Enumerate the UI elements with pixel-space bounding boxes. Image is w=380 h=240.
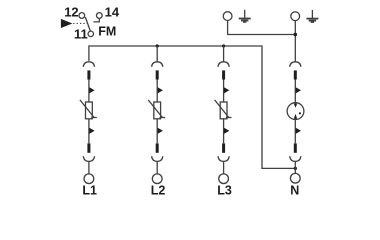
terminal circle L1 — [84, 174, 94, 184]
terminal circle L2 — [152, 174, 162, 184]
branch L1 : direction arrow lower — [89, 128, 94, 134]
branch L3 : direction arrow lower — [224, 128, 229, 134]
varistor L2 foot — [160, 117, 166, 119]
branch L3 : wire socket to terminal — [223, 161, 225, 173]
FM terminal 12 circle — [79, 13, 85, 19]
branch L2 : direction arrow lower — [158, 128, 163, 134]
top bus wire from L1 to N-bottom — [89, 46, 295, 168]
branch N : wire socket to terminal — [294, 161, 296, 173]
varistor L3 foot — [226, 117, 232, 119]
varistor L3 diagonal — [215, 100, 229, 118]
gas discharge tube N upper electrode — [294, 104, 297, 108]
FM terminal 14 circle — [96, 13, 102, 19]
svg-text:L3: L3 — [217, 183, 232, 197]
FM actuator dotted link — [73, 22, 87, 24]
branch L1 : wire pin to varistor — [88, 80, 90, 103]
branch L2 : plug pin bottom — [156, 143, 159, 152]
branch L3 : plug pin top — [222, 70, 225, 79]
branch L3 : direction arrow upper — [224, 87, 229, 93]
branch L2 : wire varistor to pin bottom — [156, 119, 158, 144]
svg-text:11: 11 — [74, 27, 88, 42]
branch N : direction arrow lower — [296, 128, 301, 134]
terminal circle L3 — [219, 174, 229, 184]
wire bus to L3 — [223, 46, 225, 62]
FM terminal 11 circle — [88, 31, 94, 37]
svg-text:12: 12 — [64, 4, 78, 19]
branch L2 : plug socket top — [152, 62, 163, 67]
branch L2 : plug socket bottom — [152, 156, 163, 161]
branch L3 : plug socket top — [218, 62, 229, 67]
varistor L2 diagonal — [148, 100, 162, 118]
branch N : plug pin bottom — [294, 143, 297, 152]
branch L1 : plug socket bottom — [83, 156, 94, 161]
FM actuator arrow — [61, 19, 73, 28]
wire left ground terminal to ground bus — [228, 21, 295, 35]
branch L1 : plug pin top — [87, 70, 90, 79]
wire right ground terminal down to N branch — [294, 21, 296, 62]
branch N : direction arrow upper — [296, 87, 301, 93]
FM switch blade — [85, 17, 90, 31]
svg-text:L2: L2 — [151, 183, 166, 197]
junction dot L3 bus — [222, 44, 225, 47]
branch L3 : plug socket bottom — [218, 156, 229, 161]
branch N : wire tube to pin bottom — [294, 119, 296, 144]
svg-text:L1: L1 — [82, 183, 97, 197]
branch L1 : plug socket top — [83, 62, 94, 67]
branch L1 : plug pin bottom — [87, 143, 90, 152]
ground terminal circle right — [291, 12, 300, 21]
ground symbol right — [306, 10, 318, 22]
branch L1 : wire varistor to pin bottom — [88, 119, 90, 144]
branch L2 : direction arrow upper — [158, 87, 163, 93]
branch N : plug pin top — [294, 70, 297, 79]
junction dot ground bus — [294, 33, 298, 37]
varistor L1 body — [86, 102, 93, 119]
svg-text:N: N — [290, 183, 299, 197]
junction dot N bottom — [294, 167, 297, 170]
junction dot L2 bus — [156, 44, 159, 47]
svg-text:14: 14 — [105, 4, 120, 19]
varistor L1 diagonal — [80, 100, 94, 118]
gas discharge tube N gas dot — [299, 112, 301, 114]
branch N : plug socket top — [290, 62, 301, 67]
branch L3 : plug pin bottom — [222, 143, 225, 152]
gas discharge tube N lower electrode — [294, 114, 297, 119]
varistor L3 body — [220, 102, 227, 119]
ground terminal circle left — [223, 12, 232, 21]
svg-text:FM: FM — [98, 25, 116, 39]
varistor L1 foot — [91, 117, 97, 119]
branch L2 : wire socket to terminal — [156, 161, 158, 173]
gas discharge tube N body — [287, 103, 304, 120]
terminal circle N — [290, 173, 300, 183]
FM contact 14 fixed hook — [93, 19, 99, 22]
branch L3 : wire varistor to pin bottom — [223, 119, 225, 144]
branch L1 : direction arrow upper — [89, 87, 94, 93]
branch N : plug socket bottom — [290, 156, 301, 161]
varistor L2 body — [154, 102, 161, 119]
branch L2 : wire pin to varistor — [156, 80, 158, 103]
branch N : wire pin to gas discharge tube — [294, 80, 296, 104]
ground symbol left — [239, 10, 251, 22]
wire bus to L2 — [156, 46, 158, 62]
branch L2 : plug pin top — [156, 70, 159, 79]
branch L1 : wire socket to terminal — [88, 161, 90, 173]
branch L3 : wire pin to varistor — [223, 80, 225, 103]
